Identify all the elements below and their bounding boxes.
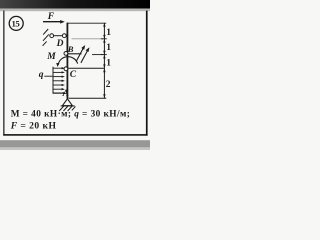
q arrow 6 bbox=[53, 88, 65, 90]
svg-text:F = 20 кН: F = 20 кН bbox=[10, 121, 57, 132]
dim tick D level bbox=[101, 38, 107, 40]
faint extension line at D level bbox=[72, 38, 104, 40]
inclined arrow 2 at B bbox=[81, 47, 90, 63]
pin support triangle at A bbox=[62, 99, 72, 106]
paper background bbox=[0, 0, 150, 150]
bottom light strip bbox=[0, 147, 150, 150]
svg-text:D: D bbox=[56, 39, 64, 49]
horizontal rod at B bbox=[68, 53, 82, 55]
hinge circle at C bbox=[64, 67, 68, 71]
dim arrow down at bottom bbox=[103, 94, 105, 98]
q arrow 2 bbox=[53, 71, 65, 73]
svg-text:1: 1 bbox=[106, 58, 111, 68]
svg-text:A: A bbox=[62, 89, 69, 99]
moment arrowhead bbox=[56, 63, 59, 67]
support hatching at A bbox=[59, 106, 75, 111]
hinge circle at wall bbox=[50, 34, 54, 38]
q arrow 3 bbox=[53, 75, 65, 77]
hinge circle at column D bbox=[62, 34, 66, 38]
svg-text:М: М bbox=[46, 52, 56, 62]
svg-text:1: 1 bbox=[106, 43, 111, 53]
gray strip under band bbox=[0, 9, 150, 12]
link rod D bbox=[54, 35, 63, 37]
dim tick B level bbox=[101, 54, 107, 56]
dim arrows at C tick bbox=[103, 64, 105, 68]
bottom gray shadow band bbox=[0, 140, 150, 147]
B extension dash bbox=[92, 54, 104, 56]
force F arrow bbox=[43, 21, 62, 23]
dim arrow up at top bbox=[103, 23, 105, 27]
dim arrows at B tick bbox=[103, 51, 105, 55]
C extension line bbox=[68, 67, 104, 69]
left frame border bbox=[3, 11, 4, 136]
svg-text:2: 2 bbox=[106, 80, 111, 90]
problem number badge circle 15 bbox=[9, 16, 23, 30]
svg-text:F: F bbox=[47, 12, 55, 22]
q arrow 4 bbox=[53, 80, 65, 82]
q arrow 7 / bottom closing line bbox=[53, 92, 66, 94]
support base line bbox=[61, 105, 75, 107]
column AD (vertical beam) bbox=[66, 23, 68, 99]
right frame border bbox=[146, 11, 148, 136]
wall hatching at D bbox=[43, 29, 49, 46]
hinge circle at B bbox=[64, 52, 68, 56]
q leader line bbox=[44, 75, 52, 77]
A extension line (bottom) bbox=[69, 97, 107, 99]
dim arrows at D tick bbox=[103, 35, 105, 39]
dimension line (vertical) bbox=[103, 23, 105, 98]
bottom frame border bbox=[3, 134, 147, 136]
distributed load q left line bbox=[52, 67, 54, 94]
svg-text:q: q bbox=[39, 70, 44, 80]
top extension line bbox=[67, 22, 106, 24]
q arrow 1 bbox=[53, 67, 65, 69]
svg-text:C: C bbox=[70, 70, 77, 80]
moment arc M bbox=[58, 57, 77, 65]
inclined arrow 1 at B bbox=[77, 45, 86, 61]
svg-text:1: 1 bbox=[106, 28, 111, 38]
q arrow 5 bbox=[53, 84, 65, 86]
svg-text:15: 15 bbox=[12, 19, 21, 29]
svg-text:М = 40 кН·м; q = 30 кН/м;: М = 40 кН·м; q = 30 кН/м; bbox=[11, 110, 131, 120]
